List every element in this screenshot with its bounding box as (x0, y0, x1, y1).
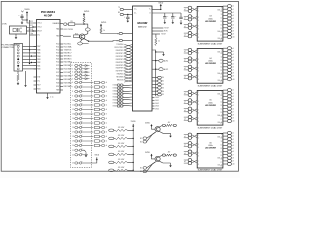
svg-text:S4: S4 (162, 91, 164, 93)
svg-text:B2: B2 (140, 171, 142, 173)
power 5VDD right of U2 (158, 2, 163, 7)
LED D22 row (72, 153, 88, 156)
svg-text:T2OUT: T2OUT (161, 34, 166, 36)
svg-text:s1: s1 (232, 93, 234, 95)
svg-text:+: + (175, 16, 176, 18)
wire crystal to U1 OSC1 (27, 26, 37, 29)
connector pad U3 right 8 (223, 26, 234, 29)
resistor R6 (155, 34, 160, 46)
resistor R13 47k (109, 151, 133, 156)
polarity mark (21, 11, 23, 13)
connector pad U2 left (113, 87, 133, 90)
wire U2 left pin row (116, 77, 132, 80)
svg-text:DIG0: DIG0 (155, 97, 159, 99)
crystal X1 oscillator box (2, 24, 27, 34)
power 5VDD Q7 (145, 152, 152, 157)
svg-text:R2OUT/RD1: R2OUT/RD1 (114, 47, 123, 49)
svg-text:RD6/SEG: RD6/SEG (64, 83, 72, 85)
svg-text:V+: V+ (149, 8, 151, 10)
svg-text:s6: s6 (232, 66, 234, 68)
svg-text:s3: s3 (232, 57, 234, 59)
resistor RN10 (94, 122, 107, 125)
svg-text:K3/D2: K3/D2 (113, 91, 117, 93)
svg-text:K2/D1: K2/D1 (113, 88, 117, 90)
LED D18 row (72, 135, 93, 138)
wire J1 bottom (17, 71, 19, 74)
svg-text:p4: p4 (156, 91, 158, 93)
IC U3 display driver body (197, 7, 223, 42)
connector pad U4 right 10 (223, 75, 234, 78)
wire U2 left pin row (116, 68, 133, 71)
resistor R3 (67, 23, 84, 26)
svg-text:T2IN/RD0: T2IN/RD0 (116, 44, 123, 46)
svg-text:RC6: RC6 (56, 69, 59, 71)
svg-text:16: 16 (72, 127, 74, 129)
svg-text:s4: s4 (232, 60, 234, 62)
svg-text:5VDD: 5VDD (84, 11, 90, 13)
connector pad U5 right 7 (223, 107, 234, 110)
svg-text:4 MHz: 4 MHz (2, 24, 7, 26)
connector J1 (14, 44, 23, 72)
svg-text:s6: s6 (232, 24, 234, 26)
svg-text:Vss: Vss (37, 35, 40, 37)
svg-text:MAX3232: MAX3232 (138, 26, 148, 29)
wire U2 left pin row (116, 71, 133, 74)
svg-text:RD4/SEG: RD4/SEG (64, 76, 72, 78)
capacitor C5 (179, 13, 182, 19)
svg-text:RC2: RC2 (56, 50, 59, 52)
svg-text:20: 20 (72, 145, 74, 147)
wire J1 pin to U1 (23, 49, 37, 51)
svg-text:R3: R3 (70, 21, 72, 23)
node Q1 (88, 41, 89, 42)
IC U4 display driver body (197, 49, 223, 84)
svg-text:17: 17 (72, 132, 74, 134)
ground in display box (85, 152, 87, 155)
svg-text:PIC16F84: PIC16F84 (41, 10, 55, 14)
svg-text:S0: S0 (162, 77, 164, 79)
svg-text:s5: s5 (232, 105, 234, 107)
transistor Q1 (80, 34, 85, 39)
resistor R12 47k (109, 143, 133, 148)
LED D12 row (72, 108, 93, 111)
U1 top right pin labels (64, 29, 74, 31)
svg-text:s8: s8 (232, 73, 234, 75)
wire U2 left pin row (116, 44, 132, 47)
connector pad U6 right 3 (223, 138, 234, 141)
svg-text:RE0/RD5: RE0/RD5 (117, 74, 124, 76)
LED D3 row (72, 71, 89, 74)
svg-text:RX: RX (118, 12, 120, 14)
svg-text:1k: 1k (103, 30, 105, 32)
wire node to collector chain (84, 24, 88, 28)
wire J1 pin to U1 (23, 65, 37, 67)
power 5VDD top-left (24, 9, 30, 16)
svg-text:RD0: RD0 (56, 56, 59, 58)
connector pad U5 right 5 (223, 101, 234, 104)
wire U2 left pin row (116, 53, 133, 56)
svg-text:RC7: RC7 (56, 72, 59, 74)
svg-text:s2: s2 (232, 96, 234, 98)
connector pad U5 right 3 (223, 95, 234, 98)
connector pad right of U2 (152, 83, 164, 86)
svg-text:RC1: RC1 (56, 47, 59, 49)
connector pad U3 left pair 2 (184, 15, 197, 21)
svg-text:47k 1/4W: 47k 1/4W (118, 151, 125, 153)
svg-text:RE1/WR5: RE1/WR5 (116, 77, 123, 79)
svg-text:21: 21 (72, 150, 74, 152)
svg-text:DIG4: DIG4 (155, 108, 159, 110)
display module dashed box (71, 63, 92, 168)
svg-text:s0: s0 (232, 6, 234, 8)
connector pad U3 left pair 1 (184, 6, 197, 12)
connector pad U2 left (113, 84, 133, 87)
IC U2 MAX3232 body (133, 6, 153, 111)
connector pad U3 right 1 (223, 5, 234, 8)
svg-text:TX: TX (118, 7, 120, 9)
svg-text:5VDD: 5VDD (145, 122, 150, 124)
connector pad U5 right 1 (223, 89, 234, 92)
connector pad U6 left pair 4 (184, 158, 197, 164)
svg-text:C1+: C1+ (134, 8, 137, 10)
node J1 wire 2 (31, 62, 32, 63)
connector pad Q7 a (140, 162, 156, 170)
svg-text:S2: S2 (162, 84, 164, 86)
wire cap rail (152, 12, 181, 14)
LED D2 row (72, 67, 89, 70)
connector pad U6 left pair 2 (184, 142, 197, 148)
svg-text:RC3: RC3 (56, 53, 59, 55)
svg-text:s6: s6 (232, 108, 234, 110)
connector pad U4 right 7 (223, 65, 234, 68)
svg-text:p3: p3 (156, 87, 158, 89)
svg-text:LED DRIVER: LED DRIVER (205, 148, 217, 150)
connector pad U6 right 1 (223, 131, 234, 134)
svg-text:B2: B2 (140, 141, 142, 143)
svg-text:K8/D7: K8/D7 (113, 106, 117, 108)
connector pad U4 right 11 (223, 78, 235, 81)
wire to U2 pad (89, 40, 119, 43)
svg-text:RD6: RD6 (37, 89, 40, 91)
LED D16 row (72, 126, 93, 129)
connector pad U4 right 9 (223, 71, 234, 74)
wire U2 bottom right pin (152, 97, 159, 99)
connector pad Q6 b (140, 132, 156, 144)
resistor RN2 (94, 86, 107, 89)
resistor RN9 (94, 117, 107, 120)
connector pad U5 left pair 1 (184, 90, 197, 96)
connector pad U5 right 11 (223, 120, 235, 123)
connector pad U5 left pair 3 (184, 107, 197, 113)
connector pad U3 right 6 (223, 20, 234, 23)
connector pad right of U2 (152, 80, 164, 83)
resistor R11 47k (109, 135, 133, 140)
svg-text:s0: s0 (232, 48, 234, 50)
svg-text:5VDD: 5VDD (145, 152, 150, 154)
svg-text:RD5: RD5 (56, 79, 59, 81)
svg-text:R1: R1 (117, 40, 119, 42)
resistor RN11 (94, 126, 107, 129)
node pull-up (133, 130, 134, 131)
resistor RN8 (94, 113, 107, 116)
svg-text:s5: s5 (106, 105, 108, 107)
resistor R5 (100, 28, 105, 34)
label PIC programming connector (2, 43, 21, 48)
svg-text:RC4: RC4 (56, 62, 59, 64)
connector pad U3 right 9 (223, 29, 234, 32)
wire U2 bottom right pin (152, 106, 159, 108)
svg-text:s1: s1 (232, 136, 234, 138)
ground for C1 (21, 21, 23, 23)
svg-text:N-SEGMENT DUAL DIGIT: N-SEGMENT DUAL DIGIT (198, 169, 223, 172)
transistor Q7 (155, 156, 160, 161)
node junction (26, 19, 27, 20)
wire J1 pin to U1 (23, 68, 37, 70)
ground below R1 (17, 82, 19, 84)
svg-text:s1: s1 (106, 87, 108, 89)
wire MCLR bus vertical (29, 20, 31, 64)
svg-text:23: 23 (72, 163, 74, 165)
svg-text:RD4: RD4 (56, 76, 59, 78)
connector pad U2 left (113, 90, 133, 93)
svg-text:p1: p1 (156, 81, 158, 83)
connector pad U3 right 7 (223, 23, 234, 26)
wire J1 shield (25, 71, 27, 83)
svg-text:s10: s10 (232, 79, 234, 81)
svg-text:RD7/PSP7: RD7/PSP7 (116, 71, 124, 73)
capacitor C4 (171, 13, 176, 18)
svg-text:DIG3: DIG3 (155, 106, 159, 108)
wire U2 left pin row (116, 62, 133, 65)
svg-text:s7: s7 (232, 27, 234, 29)
connector pad U3 left pair 3 (184, 23, 197, 29)
svg-text:N-SEGMENT DUAL DIGIT: N-SEGMENT DUAL DIGIT (198, 126, 223, 129)
resistor base Q6 (160, 122, 177, 127)
capacitor C2 (124, 15, 129, 19)
svg-text:s4: s4 (106, 136, 108, 138)
power 5VDD display (95, 154, 100, 161)
svg-text:s2: s2 (232, 139, 234, 141)
resistor RN14 (94, 140, 107, 143)
svg-text:s5: s5 (232, 148, 234, 150)
connector pad U2 left (113, 96, 133, 99)
wire to ground (156, 51, 164, 53)
svg-text:s9: s9 (232, 34, 234, 36)
connector pad U6 left pair 3 (184, 150, 197, 156)
svg-text:RD3/PSP3: RD3/PSP3 (116, 59, 124, 61)
connector pad right of U2 (152, 93, 164, 96)
ground below U1 (46, 93, 53, 99)
LED D15 row (72, 121, 93, 124)
connector pad emitter (78, 39, 89, 45)
LED D23 row (72, 161, 97, 165)
svg-text:RD0/PSP0: RD0/PSP0 (116, 50, 124, 52)
ground for C2 (127, 19, 129, 21)
svg-text:22: 22 (72, 154, 74, 156)
IC U1 PIC16F84 title (41, 10, 55, 17)
connector pad right of U2 (152, 90, 164, 93)
node OSC2 (32, 30, 33, 31)
svg-text:5VDD: 5VDD (24, 9, 30, 11)
node C2 (127, 14, 128, 15)
wire R2 to node (83, 23, 85, 24)
svg-text:K6/D5: K6/D5 (113, 100, 117, 102)
svg-text:S3: S3 (162, 87, 164, 89)
svg-text:s2: s2 (106, 91, 108, 93)
svg-text:15: 15 (72, 123, 74, 125)
svg-text:5VDD: 5VDD (101, 22, 107, 24)
svg-text:14: 14 (72, 118, 74, 120)
LED D7 row (72, 85, 93, 88)
svg-text:RB3: RB3 (37, 59, 40, 61)
node J1 wire (31, 55, 32, 56)
svg-text:Vss: Vss (37, 81, 40, 83)
LED D8 row (72, 90, 93, 93)
power 5VDD above R5 (100, 22, 107, 28)
wire pad to Q1 (84, 31, 88, 35)
svg-text:47k 1/4W: 47k 1/4W (118, 167, 125, 169)
wire 5VDD to U1 (27, 16, 34, 23)
wire U2 left pin row (117, 74, 133, 77)
LED D13 row (72, 112, 93, 115)
connector pad TX (64, 21, 73, 26)
wire U2 left pin row (116, 50, 133, 53)
svg-text:s3: s3 (106, 132, 108, 134)
wire U2 V+ to 5VDD (152, 7, 161, 9)
resistor RN3 (94, 90, 107, 93)
wire crystal to U1 OSC2 (27, 30, 37, 32)
svg-text:4k7: 4k7 (168, 152, 171, 154)
svg-text:RC0/SCL: RC0/SCL (64, 44, 72, 46)
LED D19 row (72, 139, 93, 142)
svg-text:19: 19 (72, 141, 74, 143)
svg-text:s7: s7 (232, 111, 234, 113)
svg-text:s6: s6 (106, 145, 108, 147)
svg-text:RD4/PSP4: RD4/PSP4 (116, 62, 124, 64)
svg-text:s3: s3 (106, 96, 108, 98)
connector pad U3 right 5 (223, 17, 234, 20)
connector pad U6 left pair 1 (184, 133, 197, 139)
svg-text:s1: s1 (232, 51, 234, 53)
svg-text:R1IN: R1IN (164, 31, 167, 33)
resistor R4 (74, 33, 81, 37)
svg-text:T1: T1 (117, 33, 119, 35)
wire U2 left pin row (116, 65, 133, 68)
node OSC1 (32, 26, 33, 27)
svg-text:13: 13 (72, 114, 74, 116)
svg-text:s7: s7 (232, 154, 234, 156)
connector pad U6 right 7 (223, 150, 234, 153)
connector pad U6 right 11 (223, 162, 235, 165)
LED D6 row (72, 81, 93, 84)
svg-text:RB5: RB5 (37, 53, 40, 55)
svg-text:LED DRIVER: LED DRIVER (205, 21, 217, 23)
wire U1 to R4 (63, 35, 71, 37)
wire R5 to U2 (101, 32, 119, 34)
node on MCLR bus (29, 49, 30, 50)
svg-text:40 DIP: 40 DIP (44, 14, 52, 18)
node pull-up (133, 170, 134, 171)
svg-text:OSC1: OSC1 (37, 23, 41, 25)
connector pad U4 right 8 (223, 68, 234, 71)
svg-text:s0: s0 (106, 82, 108, 84)
wire 5VDD to Q6 (152, 127, 156, 129)
wire U2 bottom right pin (152, 100, 159, 102)
connector pad U6 right 8 (223, 153, 234, 156)
connector pad U5 right 6 (223, 104, 234, 107)
svg-text:s4: s4 (232, 145, 234, 147)
connector pad right of U2 (152, 76, 164, 79)
wire U2 bottom right pin (152, 103, 159, 105)
wire U2 left pin row (116, 59, 133, 62)
LED D20 row (72, 144, 93, 147)
svg-text:s0: s0 (232, 90, 234, 92)
LED D17 row (72, 130, 93, 133)
wire VCC bus right of U2 (152, 50, 156, 96)
svg-text:5VDD: 5VDD (131, 121, 136, 123)
resistor RN4 (94, 95, 107, 98)
svg-text:s9: s9 (232, 161, 234, 163)
U1 left pin external labels (29, 21, 34, 35)
connector pad U2 left (113, 102, 133, 105)
connector pad Q7 b (140, 162, 156, 174)
resistor RN15 (94, 144, 107, 147)
svg-text:K5/D4: K5/D4 (113, 97, 117, 99)
wire AUX1 (152, 59, 168, 62)
svg-text:18: 18 (72, 136, 74, 138)
power 5VDD above R2 (83, 11, 90, 17)
svg-text:Vdd: Vdd (37, 77, 40, 79)
svg-text:5VDD: 5VDD (95, 154, 100, 156)
connector pad U6 right 2 (223, 135, 234, 138)
resistor RN7 (94, 108, 107, 111)
resistor R15 47k (109, 167, 133, 172)
svg-text:s5: s5 (232, 63, 234, 65)
svg-text:s7: s7 (232, 70, 234, 72)
svg-text:s8: s8 (232, 31, 234, 33)
resistor RN6 (94, 104, 107, 107)
svg-text:s4: s4 (232, 102, 234, 104)
resistor R10 47k (109, 127, 133, 132)
connector pad right of U2 (152, 87, 164, 90)
node 5VDD (160, 9, 161, 10)
svg-text:LED DRIVER: LED DRIVER (205, 105, 217, 107)
svg-text:RD6: RD6 (56, 83, 59, 85)
connector pad U5 left pair 4 (184, 116, 197, 122)
svg-text:s4: s4 (232, 18, 234, 20)
connector pad U4 right 3 (223, 53, 234, 56)
connector pad U6 right 6 (223, 147, 234, 150)
svg-text:RD5/PSP5: RD5/PSP5 (116, 65, 124, 67)
node pull-up (133, 162, 134, 163)
power 5VDD Q6 (145, 122, 152, 127)
node R2 (83, 23, 84, 24)
wire Q7 emitter to ground (160, 161, 171, 163)
connector pad U6 right 5 (223, 144, 234, 147)
node AUX1 (155, 60, 156, 61)
resistor base Q7 (160, 152, 177, 157)
svg-text:s5: s5 (232, 21, 234, 23)
node bus 1 (155, 51, 156, 52)
resistor R1 (17, 74, 19, 81)
connector pad U5 right 2 (223, 92, 234, 95)
svg-text:s2: s2 (232, 54, 234, 56)
resistor RN13 (94, 135, 107, 138)
svg-text:S5: S5 (162, 94, 164, 96)
svg-text:RB1: RB1 (37, 65, 40, 67)
wire U2 bottom right pin (152, 108, 159, 110)
connector pad U4 right 5 (223, 59, 234, 62)
